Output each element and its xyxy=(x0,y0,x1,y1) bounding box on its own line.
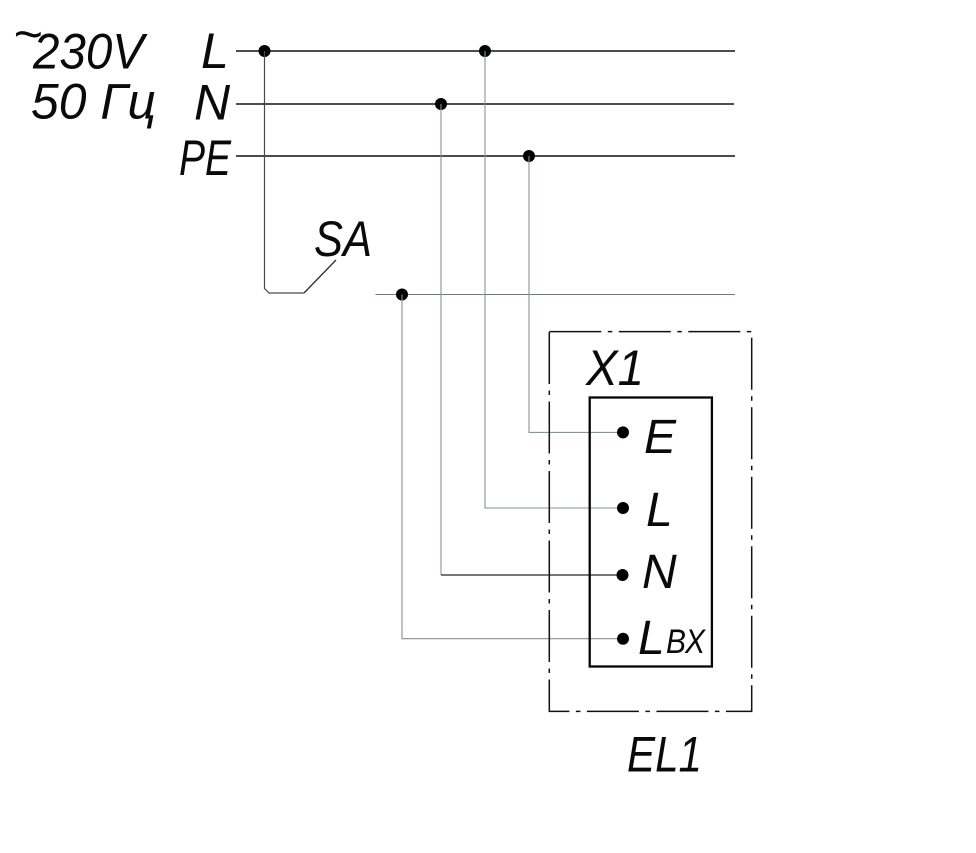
label EL1 xyxy=(627,727,702,783)
wire switched L to terminal Lvx xyxy=(402,295,623,639)
svg-text:E: E xyxy=(644,411,677,464)
svg-text:L: L xyxy=(201,23,229,79)
wire PE bus xyxy=(236,155,735,157)
terminal pin Lvx xyxy=(617,633,629,645)
svg-text:N: N xyxy=(642,546,677,599)
pin label Lvx xyxy=(638,612,706,665)
node L-lamp junction xyxy=(479,45,491,57)
pin label N xyxy=(642,546,677,599)
terminal pin E xyxy=(617,426,629,438)
label X1 xyxy=(585,340,644,396)
node L-SA junction xyxy=(259,45,271,57)
terminal pin N xyxy=(617,569,629,581)
label SA xyxy=(314,211,372,267)
net label PE xyxy=(179,130,232,186)
net label L xyxy=(201,23,229,79)
wire L down to switch SA xyxy=(265,51,305,293)
svg-text:EL1: EL1 xyxy=(627,727,702,783)
wire PE to terminal E xyxy=(529,156,623,432)
node switched-L junction xyxy=(396,289,408,301)
wire L bus xyxy=(236,50,735,52)
label ~230V xyxy=(13,6,148,80)
svg-text:230V: 230V xyxy=(32,24,148,80)
svg-text:50 Гц: 50 Гц xyxy=(31,74,156,130)
pin label L xyxy=(646,484,673,537)
svg-text:X1: X1 xyxy=(585,340,644,396)
pin label E xyxy=(644,411,677,464)
svg-text:L: L xyxy=(646,484,673,537)
svg-text:SA: SA xyxy=(314,211,372,267)
terminal block X1 xyxy=(590,398,712,667)
svg-text:PE: PE xyxy=(179,130,232,186)
wire N to terminal N (horizontal) xyxy=(441,574,623,576)
svg-text:N: N xyxy=(194,75,231,131)
luminaire EL1 boundary (dash-dot) xyxy=(549,332,751,712)
terminal pin L xyxy=(617,502,629,514)
svg-text:ВХ: ВХ xyxy=(666,623,706,661)
net label N xyxy=(194,75,231,131)
node N junction xyxy=(435,98,447,110)
wire switched L output xyxy=(376,294,736,296)
wire N to terminal N (vertical) xyxy=(440,104,442,575)
wire N bus xyxy=(236,103,734,105)
node PE junction xyxy=(523,150,535,162)
label 50 Hz xyxy=(31,74,156,130)
svg-text:L: L xyxy=(638,612,665,665)
switch SA blade xyxy=(304,260,336,293)
wire L to terminal L xyxy=(485,51,623,508)
